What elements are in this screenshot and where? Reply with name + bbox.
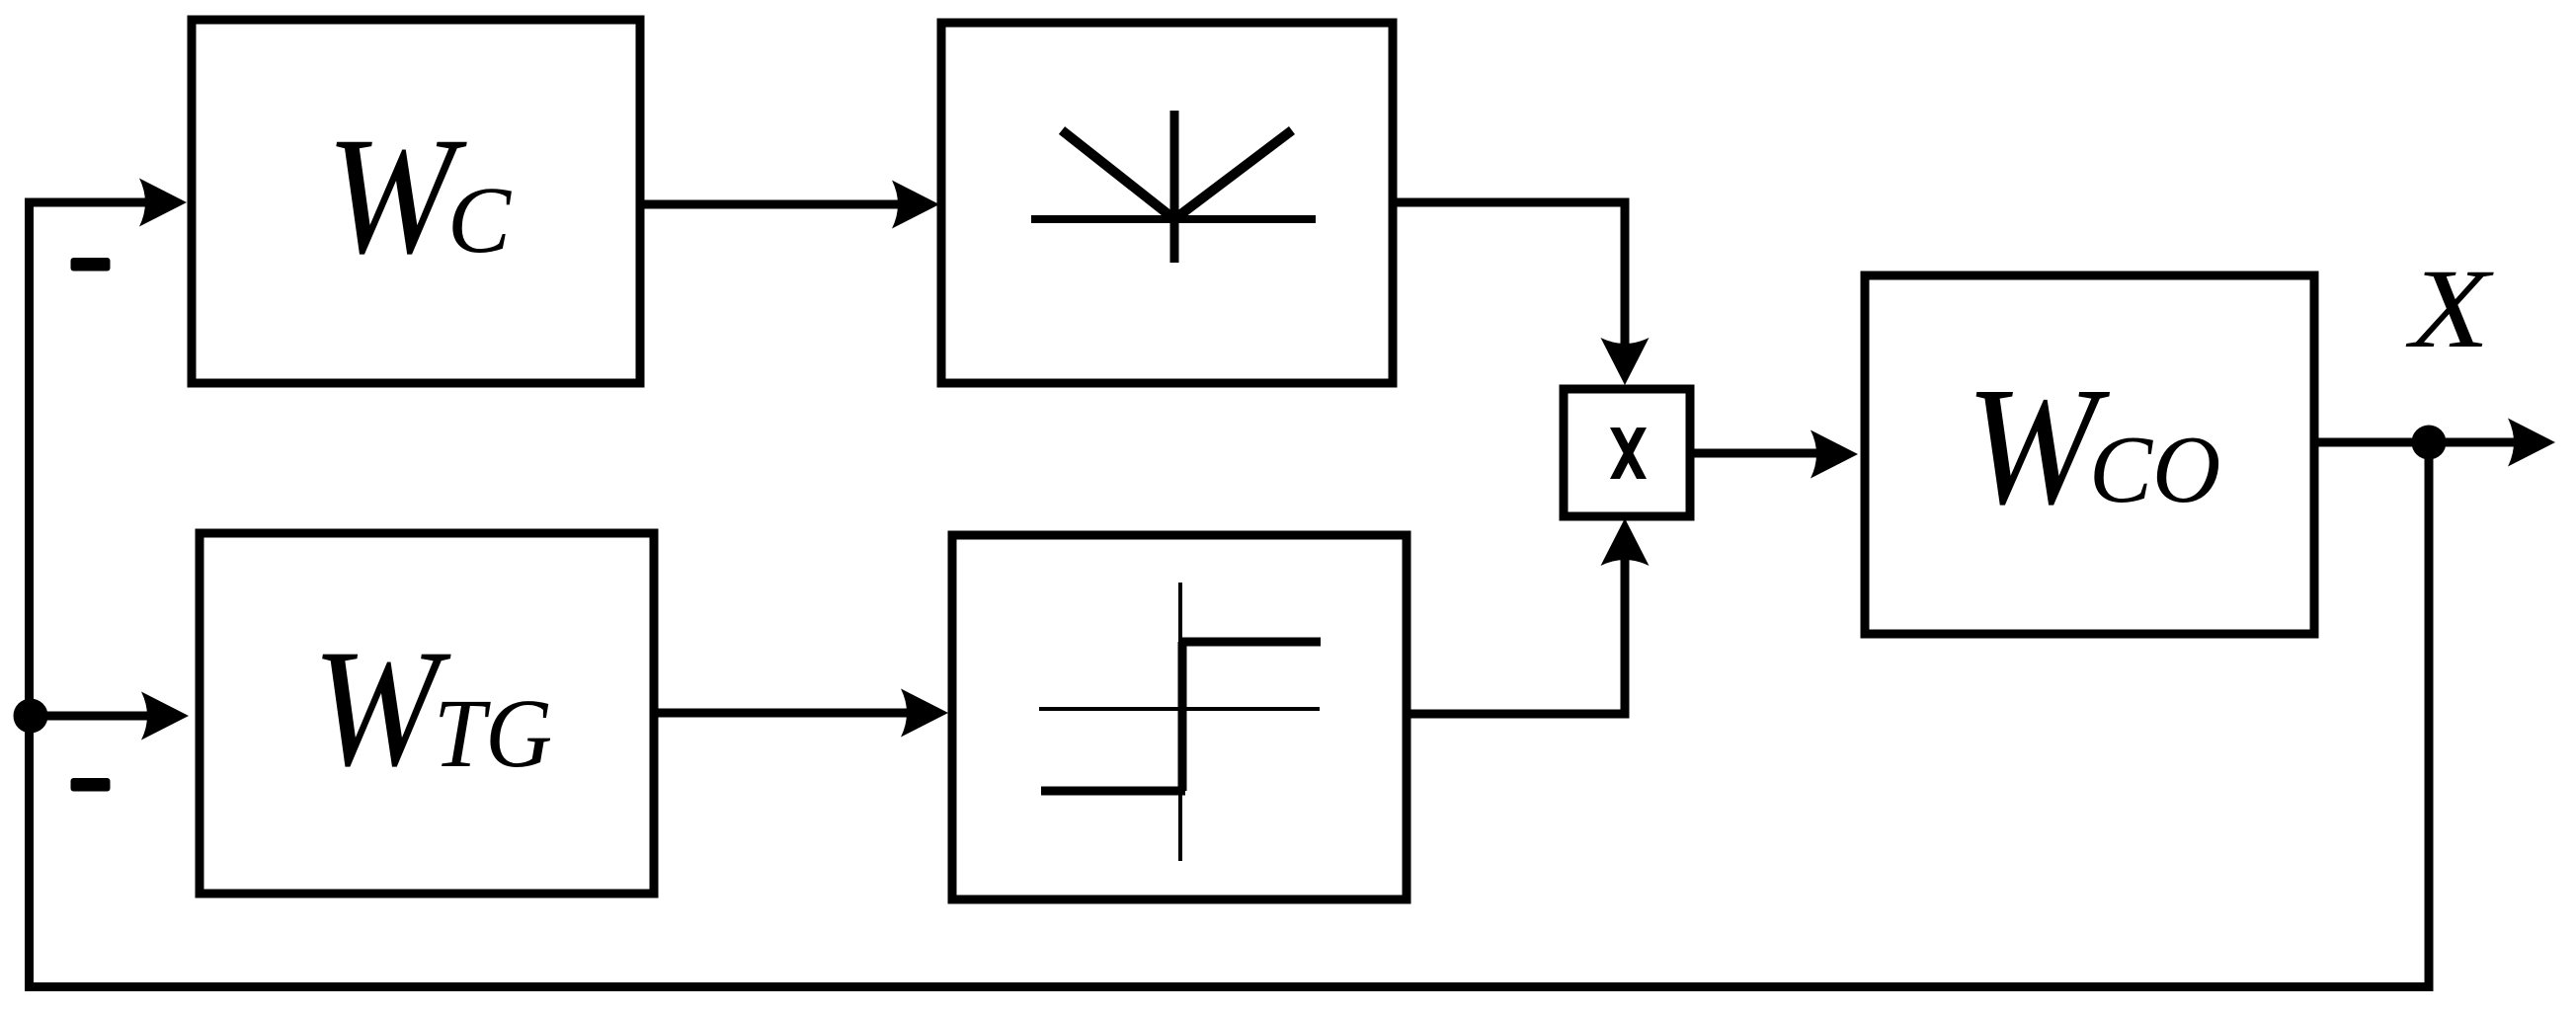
block W_TG bbox=[200, 533, 654, 894]
svg-text:X: X bbox=[2405, 246, 2495, 371]
limiter vertical axis bbox=[1170, 111, 1179, 263]
multiplier x symbol stroke 2 bbox=[1610, 428, 1647, 479]
block relay (sign characteristic) bbox=[952, 535, 1407, 899]
arrowhead down into multiplier bbox=[1601, 338, 1650, 385]
wire W_TG output bbox=[654, 709, 924, 718]
svg-text:W: W bbox=[326, 103, 467, 288]
arrowhead up into multiplier bbox=[1601, 518, 1650, 566]
wire W_C output bbox=[640, 200, 914, 209]
minus sign at W_TG input bbox=[71, 778, 111, 792]
wire input to W_TG bbox=[29, 712, 163, 721]
arrowhead into relay box bbox=[901, 689, 948, 738]
wire limiter output to multiplier bbox=[1393, 202, 1625, 355]
relay step vertical bbox=[1178, 642, 1187, 791]
limiter left diagonal bbox=[1062, 130, 1174, 219]
block limiter (abs-value characteristic) bbox=[941, 23, 1393, 383]
wire relay output to multiplier bbox=[1407, 553, 1625, 714]
wire W_CO output bbox=[2314, 438, 2524, 447]
minus sign at W_C input bbox=[71, 258, 111, 272]
wire W_TG input arrow bbox=[141, 692, 189, 740]
multiplier x symbol stroke 1 bbox=[1610, 428, 1647, 479]
svg-text:W: W bbox=[312, 615, 451, 801]
relay horizontal axis (thin) bbox=[1039, 707, 1320, 711]
block W_C bbox=[192, 20, 640, 383]
node A: summing junction dot on left vertical bbox=[14, 699, 48, 734]
arrowhead into limiter box bbox=[892, 181, 939, 229]
node X: output pickoff dot bbox=[2412, 426, 2447, 460]
svg-text:C: C bbox=[447, 167, 512, 273]
wire multiplier output bbox=[1689, 449, 1822, 458]
block multiplier bbox=[1564, 389, 1690, 516]
wire feedback loop: left vertical, bottom horizontal, right vertical bbox=[30, 202, 2430, 987]
svg-text:TG: TG bbox=[434, 678, 552, 787]
limiter right diagonal bbox=[1174, 130, 1292, 219]
block W_CO bbox=[1865, 275, 2314, 634]
svg-text:CO: CO bbox=[2089, 416, 2220, 522]
relay step upper horizontal bbox=[1182, 638, 1321, 647]
relay step lower horizontal bbox=[1041, 787, 1185, 796]
arrowhead into W_C bbox=[139, 179, 187, 227]
arrowhead output X bbox=[2508, 419, 2555, 467]
limiter horizontal axis bbox=[1031, 215, 1316, 223]
relay vertical axis (thin) bbox=[1178, 583, 1182, 861]
arrowhead into W_CO bbox=[1811, 430, 1858, 479]
